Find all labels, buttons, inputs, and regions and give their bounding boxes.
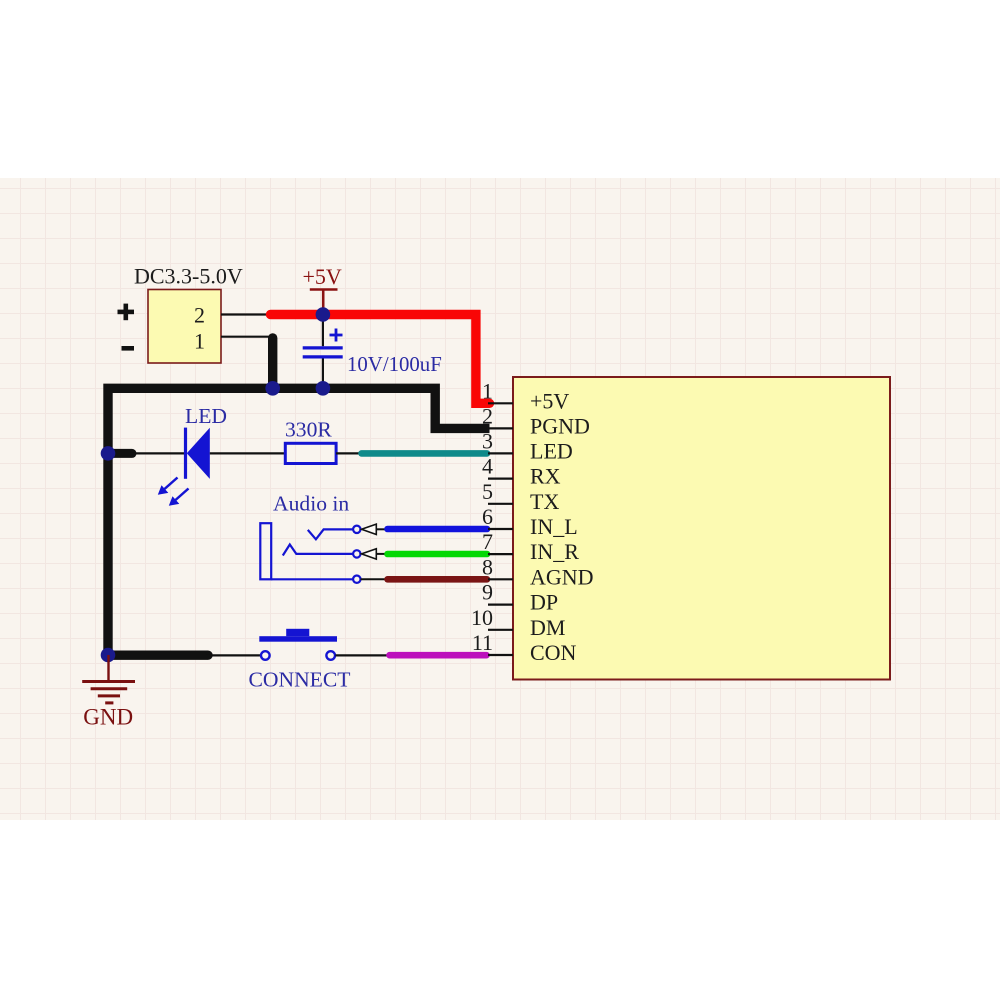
- capacitor C1 top plate: [303, 346, 343, 349]
- switch S1 cap: [286, 629, 309, 636]
- svg-text:DC3.3-5.0V: DC3.3-5.0V: [134, 264, 243, 289]
- IC pin 11 stub: [488, 654, 513, 656]
- junction GND bus at LED branch: [101, 446, 116, 461]
- svg-text:AGND: AGND: [530, 564, 594, 589]
- svg-text:11: 11: [472, 630, 493, 655]
- wire resistor to teal net (thin): [336, 452, 360, 454]
- wire LED net teal: [362, 450, 488, 457]
- svg-text:7: 7: [482, 529, 493, 554]
- switch S1 bar: [259, 636, 337, 642]
- wire connector pin1 to GND net (thin): [221, 336, 270, 338]
- wire AGND maroon: [388, 576, 488, 583]
- switch S1 right terminal circle: [326, 651, 335, 660]
- audio jack J2 body: [260, 523, 271, 579]
- svg-text:10V/100uF: 10V/100uF: [347, 353, 442, 376]
- junction +5V at capacitor: [316, 307, 331, 322]
- wire connector pin1 vertical thick to bus: [268, 338, 277, 388]
- svg-text:LED: LED: [185, 404, 227, 428]
- ground symbol bar 4: [105, 701, 113, 704]
- IC pin 6 stub: [488, 528, 513, 530]
- svg-text:TX: TX: [530, 489, 559, 514]
- svg-text:3: 3: [482, 428, 493, 453]
- wire thin to switch left terminal: [206, 654, 261, 656]
- wire LED branch thick stub: [108, 449, 132, 458]
- junction GND bus at connect/gnd branch: [101, 648, 116, 663]
- input arrow IN_L: [362, 524, 386, 534]
- ground symbol bar 3: [98, 694, 120, 697]
- svg-text:6: 6: [482, 504, 493, 529]
- svg-text:9: 9: [482, 580, 493, 605]
- connector J1 box: [148, 290, 221, 364]
- svg-text:CONNECT: CONNECT: [249, 667, 351, 691]
- svg-text:DM: DM: [530, 615, 565, 640]
- wire switch right to CON (thin): [335, 654, 388, 656]
- IC pin 4 stub: [488, 478, 513, 480]
- audio jack sleeve terminal circle: [353, 576, 360, 583]
- IC pin 2 stub: [488, 427, 513, 429]
- LED D1 triangle: [187, 428, 210, 479]
- schematic sheet background: [0, 178, 1000, 820]
- IC pin 3 stub: [488, 452, 513, 454]
- svg-text:IN_R: IN_R: [530, 539, 579, 564]
- ground symbol bar 1: [82, 680, 135, 683]
- ground symbol stem: [107, 655, 109, 681]
- svg-text:8: 8: [482, 554, 493, 579]
- svg-text:2: 2: [482, 403, 493, 428]
- svg-text:PGND: PGND: [530, 413, 590, 438]
- wire +5V net thick red to IC pin1: [271, 315, 490, 404]
- svg-text:DP: DP: [530, 590, 558, 615]
- svg-text:+5V: +5V: [303, 264, 342, 289]
- svg-text:GND: GND: [83, 705, 133, 730]
- IC pin 8 stub: [488, 578, 513, 580]
- svg-text:5: 5: [482, 479, 493, 504]
- LED D1 cathode bar: [184, 428, 187, 479]
- wire GND bus thick black to IC pin2: [108, 388, 490, 655]
- IC pin 9 stub: [488, 603, 513, 605]
- audio jack tip terminal circle: [353, 526, 360, 533]
- svg-text:Audio in: Audio in: [273, 492, 349, 516]
- wire capacitor bottom to GND bus (thin): [322, 359, 324, 389]
- svg-text:LED: LED: [530, 438, 573, 463]
- switch S1 left terminal circle: [261, 651, 270, 660]
- power symbol +5V bar: [310, 288, 338, 291]
- input arrow IN_R: [362, 549, 386, 559]
- ground symbol bar 2: [91, 687, 128, 690]
- wire connector pin2 to +5V net (thin): [221, 313, 272, 315]
- power symbol +5V stem: [322, 290, 325, 315]
- wire IN_L blue: [388, 526, 488, 533]
- svg-text:RX: RX: [530, 464, 561, 489]
- wire junction to capacitor top (thin): [322, 315, 324, 347]
- wire sleeve to AGND (thin): [361, 578, 387, 580]
- IC pin 10 stub: [488, 629, 513, 631]
- capacitor C1 bottom plate: [303, 355, 343, 358]
- svg-text:IN_L: IN_L: [530, 514, 578, 539]
- svg-text:2: 2: [194, 303, 205, 328]
- LED light arrow 2: [169, 489, 189, 506]
- connector polarity -: [122, 346, 135, 351]
- connector polarity +: [118, 304, 135, 321]
- svg-text:1: 1: [194, 329, 205, 354]
- IC pin 5 stub: [488, 503, 513, 505]
- junction GND bus at capacitor: [316, 381, 331, 396]
- junction GND bus at connector pin1: [265, 381, 280, 396]
- wire IN_R green: [388, 551, 488, 558]
- capacitor C1 plus sign: [330, 329, 343, 342]
- svg-text:4: 4: [482, 454, 493, 479]
- svg-text:10: 10: [471, 605, 493, 630]
- svg-text:1: 1: [482, 378, 493, 403]
- IC pin 7 stub: [488, 553, 513, 555]
- wire thin to LED cathode: [130, 452, 185, 454]
- LED light arrow 1: [158, 478, 178, 495]
- wire LED anode to resistor (thin): [210, 452, 285, 454]
- audio jack ring terminal circle: [353, 550, 360, 557]
- wire GND to connect switch thick: [108, 651, 208, 660]
- audio jack tip contact: [308, 529, 353, 539]
- grid lines: [0, 178, 1000, 820]
- wire CON magenta: [390, 652, 487, 659]
- audio jack ring contact: [283, 545, 353, 556]
- svg-text:330R: 330R: [285, 418, 332, 442]
- svg-text:+5V: +5V: [530, 388, 569, 413]
- IC pin 1 stub: [488, 402, 513, 404]
- audio jack sleeve contact: [271, 578, 353, 580]
- svg-text:CON: CON: [530, 640, 577, 665]
- IC U1 box: [513, 377, 890, 680]
- resistor R1 body: [285, 443, 336, 463]
